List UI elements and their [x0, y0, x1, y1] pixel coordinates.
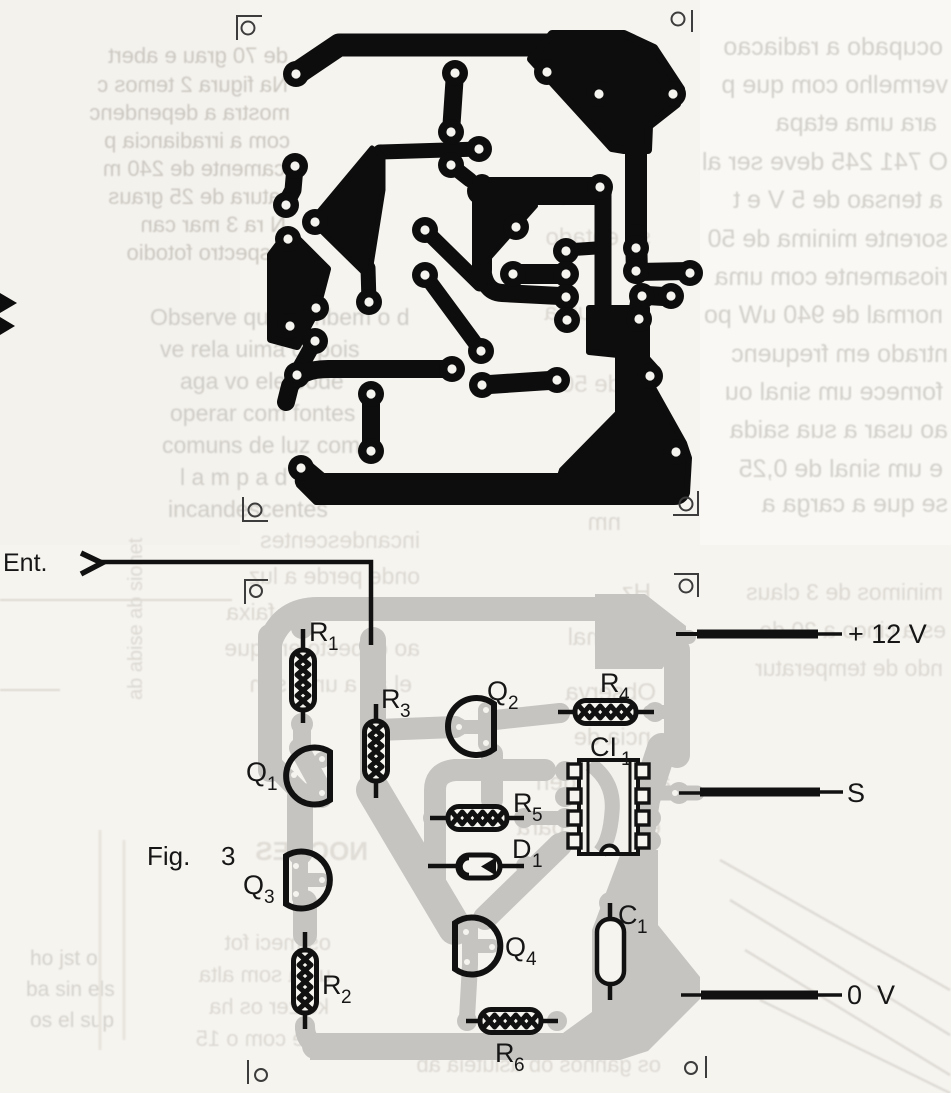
svg-text:C: C	[618, 900, 638, 930]
svg-text:S: S	[847, 778, 865, 808]
svg-text:N ra 3 mar can: N ra 3 mar can	[141, 212, 287, 237]
svg-text:R: R	[381, 684, 401, 714]
svg-text:2: 2	[341, 987, 352, 1008]
svg-text:Q: Q	[243, 870, 264, 900]
svg-text:1: 1	[621, 749, 632, 770]
svg-text:se que a carga a: se que a carga a	[762, 490, 948, 518]
svg-text:3: 3	[400, 701, 411, 722]
svg-text:4: 4	[526, 949, 537, 970]
svg-text:ocupado a radiacao: ocupado a radiacao	[723, 33, 943, 61]
svg-text:Na figura 2 temos c: Na figura 2 temos c	[97, 72, 288, 97]
svg-text:ratura de 25 graus: ratura de 25 graus	[108, 184, 288, 209]
svg-text:1: 1	[532, 851, 543, 872]
svg-text:riosamente com uma: riosamente com uma	[714, 263, 948, 291]
svg-text:e um sinal de 0,25: e um sinal de 0,25	[739, 455, 943, 483]
svg-text:ve rela uima depois: ve rela uima depois	[160, 336, 359, 362]
svg-text:1: 1	[328, 634, 339, 655]
svg-text:normal de 940 uW po: normal de 940 uW po	[704, 301, 943, 329]
svg-text:nm: nm	[588, 509, 621, 536]
svg-text:incandescentes: incandescentes	[260, 527, 420, 553]
svg-text:Fig.: Fig.	[147, 841, 190, 871]
svg-text:O 741 245 deve ser al: O 741 245 deve ser al	[702, 148, 948, 176]
svg-text:ao usar a sua saida: ao usar a sua saida	[730, 416, 948, 444]
svg-text:6: 6	[514, 1055, 525, 1076]
svg-text:ntrado em frequenc: ntrado em frequenc	[731, 340, 948, 368]
svg-text:4: 4	[619, 685, 630, 706]
svg-text:R: R	[309, 617, 329, 647]
svg-text:R: R	[513, 788, 533, 818]
svg-text:Q: Q	[505, 932, 526, 962]
svg-text:CI: CI	[590, 732, 617, 762]
svg-text:5: 5	[532, 805, 543, 826]
svg-text:fornece um sinal ou: fornece um sinal ou	[725, 378, 943, 406]
svg-text:+ 12 V: + 12 V	[848, 619, 927, 649]
svg-text:onde perde a luz: onde perde a luz	[249, 563, 420, 589]
svg-text:Q: Q	[246, 757, 267, 787]
svg-text:R: R	[600, 668, 620, 698]
svg-text:ndo de temperatur: ndo de temperatur	[755, 655, 943, 681]
svg-text:1: 1	[267, 774, 278, 795]
svg-text:a tensao de 5 V e t: a tensao de 5 V e t	[733, 186, 943, 214]
svg-text:R: R	[495, 1038, 515, 1068]
svg-text:com a irradiancia p: com a irradiancia p	[104, 128, 290, 153]
svg-text:D: D	[512, 834, 532, 864]
svg-text:icamente de 240 m: icamente de 240 m	[103, 156, 290, 181]
svg-text:R: R	[322, 970, 342, 1000]
svg-text:espectro fotodio: espectro fotodio	[126, 240, 283, 265]
svg-text:0 V: 0 V	[847, 980, 895, 1010]
svg-text:3: 3	[264, 887, 275, 908]
svg-text:comuns de luz como: comuns de luz como	[162, 432, 373, 458]
svg-text:sorente minima de 50: sorente minima de 50	[708, 225, 948, 253]
svg-text:1: 1	[637, 917, 648, 938]
svg-text:Q: Q	[487, 676, 508, 706]
svg-text:Ent.: Ent.	[3, 549, 47, 577]
svg-text:mostra a dependenc: mostra a dependenc	[89, 100, 290, 125]
svg-text:minimos de 3 claus: minimos de 3 claus	[746, 579, 943, 605]
svg-text:operar com fontes: operar com fontes	[170, 400, 355, 426]
svg-text:ara uma etapa: ara uma etapa	[776, 109, 937, 137]
svg-text:ho jst o: ho jst o	[30, 947, 98, 970]
svg-text:de 70 grau e abert: de 70 grau e abert	[108, 43, 288, 68]
svg-text:vermelho com que p: vermelho com que p	[721, 71, 948, 99]
svg-text:3: 3	[221, 841, 235, 871]
svg-text:de 50: de 50	[561, 371, 621, 398]
svg-text:2: 2	[508, 693, 519, 714]
